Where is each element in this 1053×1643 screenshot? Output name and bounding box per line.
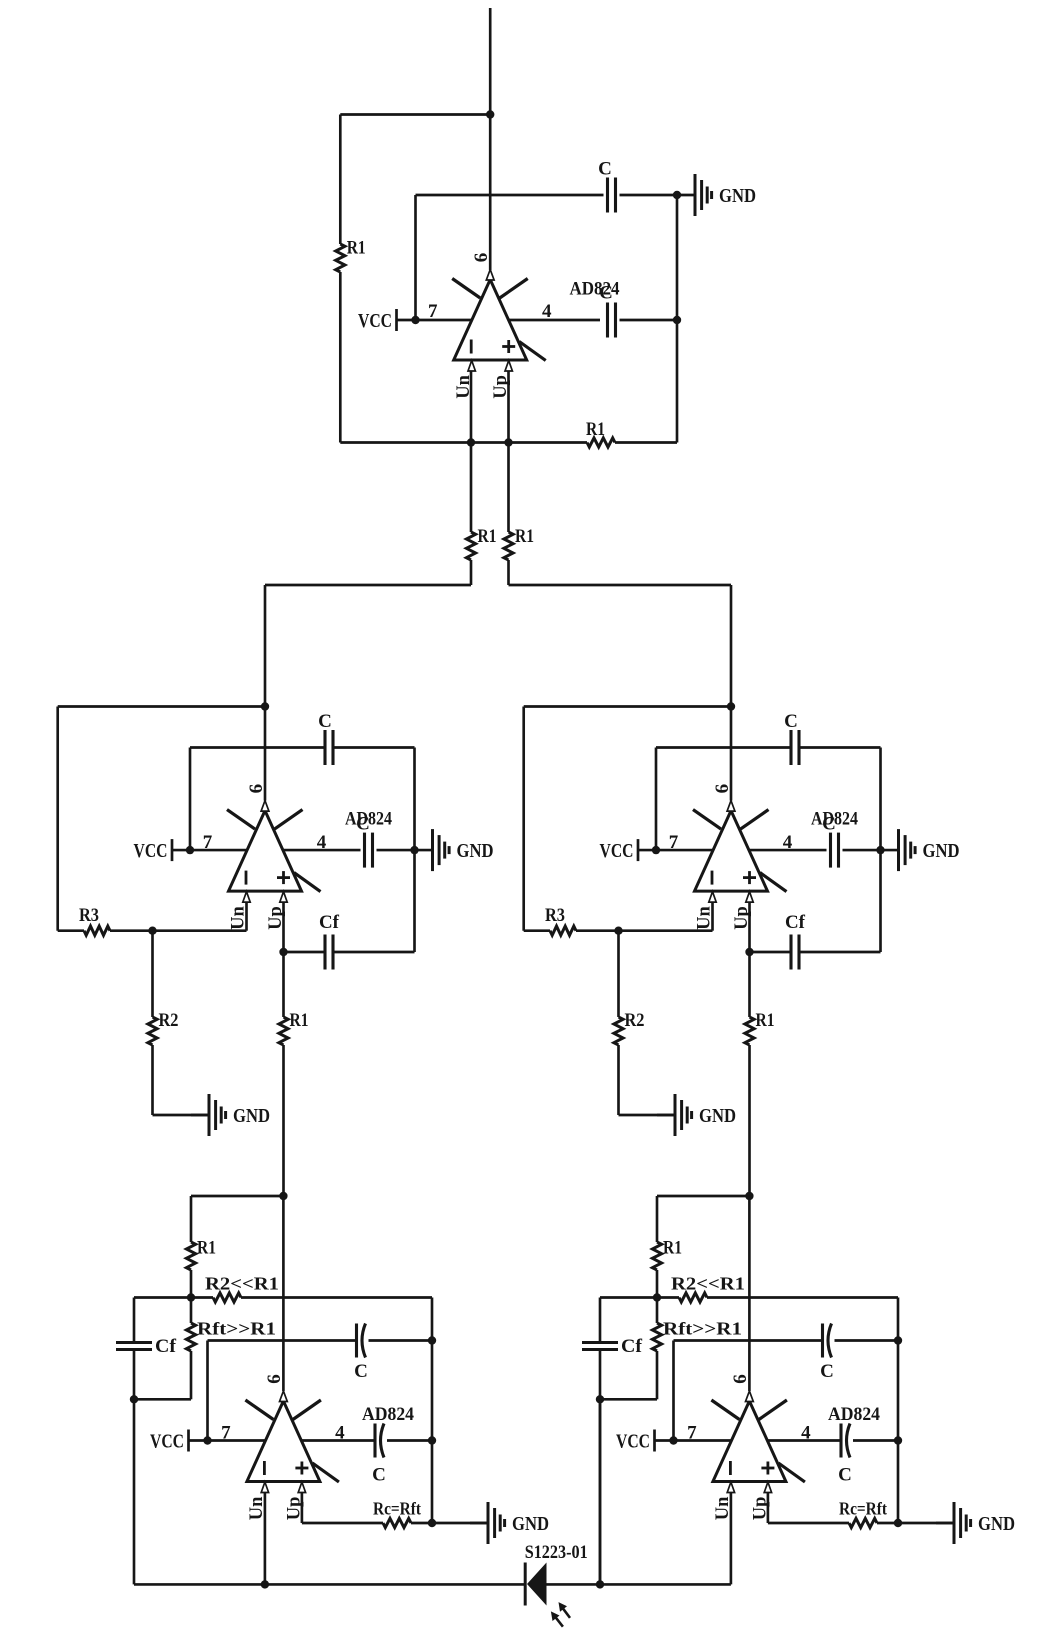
node R2 junction middle right: [614, 927, 622, 935]
resistor Rc bottom left: [383, 1518, 411, 1527]
wire Rft bottom link left: [134, 1398, 191, 1401]
svg-text:AD824: AD824: [362, 1405, 414, 1425]
svg-text:R1: R1: [586, 419, 605, 440]
light arrow 1: [551, 1611, 563, 1626]
wire R2 rail right bottom left: [241, 1296, 432, 1299]
wire pin 4 left middle right: [749, 849, 826, 852]
svg-text:R3: R3: [545, 905, 565, 926]
wire R2 lower middle left: [151, 1045, 154, 1115]
wire Up down bottom left: [301, 1493, 304, 1523]
ground pin4 middle left: [415, 829, 494, 871]
VCC supply bottom left: [150, 1430, 189, 1453]
svg-text:7: 7: [221, 1423, 231, 1444]
svg-text:C: C: [822, 814, 836, 835]
wire right stage Cf vertical to rail: [599, 1399, 602, 1584]
wire right vertical bottom left: [431, 1298, 434, 1524]
svg-text:C: C: [354, 1361, 368, 1382]
svg-text:GND: GND: [457, 841, 494, 862]
wire output to left loop middle right: [524, 705, 731, 708]
wire pin 4 left middle left: [283, 849, 360, 852]
node Cf junction middle right: [745, 948, 753, 956]
light arrow 2: [559, 1602, 571, 1618]
node input junction bottom right: [745, 1192, 753, 1200]
svg-text:C: C: [372, 1465, 386, 1486]
wire C right middle left: [333, 746, 415, 749]
wire pin 7 middle right: [638, 849, 713, 852]
wire pin 7 top stage: [397, 319, 472, 322]
svg-text:4: 4: [783, 832, 793, 853]
wire to ground middle left: [153, 1114, 210, 1117]
wire Up input upper middle right: [748, 902, 751, 953]
wire pin 7 middle left: [172, 849, 247, 852]
svg-text:GND: GND: [978, 1514, 1015, 1535]
svg-text:R1: R1: [515, 526, 534, 547]
wire R3 rail right middle right: [576, 929, 713, 932]
node C junction bottom left: [428, 1336, 436, 1344]
wire Un input middle left: [245, 902, 248, 931]
wire Cf lower bottom left: [133, 1350, 136, 1585]
resistor R1 middle right: [745, 1017, 754, 1045]
node C junction bottom right: [894, 1336, 902, 1344]
VCC supply bottom right: [616, 1430, 655, 1453]
ground R2 middle right: [657, 1094, 736, 1136]
node Rc junction bottom right: [894, 1519, 902, 1527]
wire Un down lower: [470, 560, 473, 585]
capacitor C bottom right: [823, 1324, 832, 1358]
wire R3 rail right middle left: [110, 929, 247, 932]
wire left loop vertical middle left: [56, 707, 59, 931]
wire VCC branch vertical: [414, 195, 417, 320]
wire right vertical bottom right: [897, 1298, 900, 1524]
wire Cf top bottom right: [600, 1296, 657, 1299]
wire to ground middle right: [619, 1114, 676, 1117]
resistor R2 middle left: [148, 1017, 157, 1045]
wire pin 4 top stage left: [508, 319, 600, 322]
wire Rft upper bottom left: [190, 1298, 193, 1324]
op-amp AD824 middle right: [693, 801, 787, 903]
resistor Rft bottom right: [652, 1323, 661, 1351]
wire pin 6 output bottom left: [282, 1196, 285, 1391]
wire pin 4 top stage right: [620, 319, 678, 322]
svg-text:C: C: [838, 1465, 852, 1486]
wire down to left stage output: [264, 585, 267, 707]
op-amp AD824 bottom right: [711, 1391, 805, 1493]
svg-text:6: 6: [712, 784, 733, 794]
wire right vertical middle left: [413, 748, 416, 953]
wire top stage bottom rail right: [615, 441, 677, 444]
capacitor Cf bottom left: [116, 1343, 152, 1350]
svg-text:R2: R2: [625, 1010, 645, 1031]
wire pin 4 right bottom left: [387, 1439, 432, 1442]
wire Un input middle right: [711, 902, 714, 931]
wire VCC branch bottom left: [206, 1341, 209, 1441]
node Up rail junction: [504, 438, 512, 446]
wire R2 rail left bottom right: [657, 1296, 679, 1299]
wire C right middle right: [799, 746, 881, 749]
wire R2 lower middle right: [617, 1045, 620, 1115]
node photodiode junction: [596, 1580, 604, 1588]
resistor R1 bottom right: [652, 1242, 661, 1270]
resistor Rft bottom left: [186, 1323, 195, 1351]
svg-text:R1: R1: [290, 1010, 309, 1031]
svg-text:VCC: VCC: [358, 311, 392, 332]
svg-text:4: 4: [801, 1423, 811, 1444]
wire Up input upper middle left: [282, 902, 285, 953]
svg-text:Cf: Cf: [155, 1336, 177, 1357]
wire interconnect right horizontal: [509, 584, 732, 587]
node VCC junction bottom left: [203, 1436, 211, 1444]
svg-text:7: 7: [687, 1423, 697, 1444]
capacitor Cf bottom right: [582, 1343, 618, 1350]
capacitor Cf middle right: [791, 935, 799, 970]
wire output to left loop middle left: [58, 705, 265, 708]
wire top stage bottom rail left: [340, 441, 587, 444]
wire C left bottom right: [674, 1339, 823, 1342]
wire Cf left middle right: [750, 951, 792, 954]
svg-text:S1223-01: S1223-01: [525, 1543, 588, 1563]
svg-text:R2<<R1: R2<<R1: [205, 1274, 279, 1294]
resistor R1 top stage bottom rail: [587, 438, 615, 447]
svg-text:AD824: AD824: [828, 1405, 880, 1425]
wire Cf lower bottom right: [599, 1350, 602, 1585]
node feedback junction bottom left: [187, 1293, 195, 1301]
svg-text:VCC: VCC: [600, 841, 634, 862]
node Rc junction bottom left: [428, 1519, 436, 1527]
wire Cf upper bottom right: [599, 1298, 602, 1343]
node input junction bottom left: [279, 1192, 287, 1200]
wire R3 rail left middle right: [524, 929, 550, 932]
wire R2 upper middle left: [151, 931, 154, 1017]
wire Up down upper: [507, 443, 510, 533]
op-amp AD824 top: [452, 270, 546, 372]
ground Rc bottom left: [470, 1502, 549, 1544]
wire top C left segment: [416, 194, 604, 197]
ground Rc bottom right: [936, 1502, 1015, 1544]
svg-text:6: 6: [730, 1374, 751, 1384]
wire C left bottom left: [208, 1339, 357, 1342]
svg-text:GND: GND: [233, 1106, 270, 1127]
wire Rft upper bottom right: [656, 1298, 659, 1324]
svg-text:Up: Up: [266, 906, 286, 930]
node Cf junction bottom right: [596, 1395, 604, 1403]
wire Un input bottom left: [264, 1493, 267, 1584]
wire pin 4 right bottom right: [853, 1439, 898, 1442]
capacitor C middle right: [791, 730, 799, 765]
svg-text:R1: R1: [197, 1238, 216, 1259]
svg-text:R1: R1: [756, 1010, 775, 1031]
wire pin 6 output middle right: [730, 707, 733, 801]
node pin4 GND junction middle right: [876, 846, 884, 854]
wire Rft lower bottom right: [656, 1351, 659, 1399]
svg-text:6: 6: [471, 253, 492, 263]
svg-text:6: 6: [246, 784, 267, 794]
VCC supply middle right: [600, 839, 639, 862]
wire right vertical middle right: [879, 748, 882, 953]
ground R2 middle left: [191, 1094, 270, 1136]
svg-text:R3: R3: [79, 905, 99, 926]
svg-text:C: C: [820, 1361, 834, 1382]
node output junction middle right: [727, 702, 735, 710]
wire Up to bottom stage right: [748, 1045, 751, 1196]
svg-text:GND: GND: [923, 841, 960, 862]
svg-text:Cf: Cf: [319, 912, 340, 933]
wire R1 upper bottom left: [190, 1196, 193, 1242]
svg-text:4: 4: [542, 301, 552, 322]
wire R1 upper bottom right: [656, 1196, 659, 1242]
svg-text:Up: Up: [750, 1497, 770, 1521]
wire Rc right bottom left: [411, 1522, 488, 1525]
svg-text:Rft>>R1: Rft>>R1: [663, 1319, 742, 1339]
wire Rc right bottom right: [877, 1522, 954, 1525]
node R2 junction middle left: [148, 927, 156, 935]
op-amp AD824 bottom left: [245, 1391, 339, 1493]
svg-text:7: 7: [669, 832, 679, 853]
svg-text:R2: R2: [159, 1010, 179, 1031]
wire Cf right middle right: [799, 951, 881, 954]
wire down to right stage output: [730, 585, 733, 707]
wire pin 6 output top stage: [489, 115, 492, 271]
wire top C right segment: [620, 194, 678, 197]
capacitor C pin4 middle left: [365, 833, 373, 868]
resistor R3 middle right: [550, 926, 576, 935]
node top GND junction: [673, 191, 681, 199]
wire Up mid middle left: [282, 952, 285, 1017]
svg-text:GND: GND: [719, 186, 756, 207]
wire left feedback lower: [339, 272, 342, 443]
svg-text:C: C: [599, 283, 613, 304]
wire input to top stage (pin 6 node): [489, 8, 492, 115]
photodiode D1 S1223-01: [525, 1563, 546, 1606]
wire Up input top stage: [507, 371, 510, 443]
wire C left middle right: [656, 746, 791, 749]
svg-text:Rft>>R1: Rft>>R1: [197, 1319, 276, 1339]
wire R2 rail left bottom left: [191, 1296, 213, 1299]
op-amp AD824 middle left: [227, 801, 321, 903]
wire C left middle left: [190, 746, 325, 749]
svg-text:R1: R1: [663, 1238, 682, 1259]
capacitor C pin4 bottom right: [841, 1424, 850, 1458]
node VCC junction middle right: [652, 846, 660, 854]
svg-text:Up: Up: [284, 1497, 304, 1521]
wire interconnect left horizontal: [265, 584, 471, 587]
resistor R1 on Up interconnect: [504, 532, 513, 560]
svg-text:Rc=Rft: Rc=Rft: [373, 1499, 421, 1519]
svg-text:VCC: VCC: [616, 1432, 650, 1453]
node pin4 junction bottom right: [894, 1436, 902, 1444]
svg-text:4: 4: [335, 1423, 345, 1444]
wire Cf top bottom left: [134, 1296, 191, 1299]
resistor R3 middle left: [84, 926, 110, 935]
resistor R2 middle right: [614, 1017, 623, 1045]
resistor R1 bottom left: [186, 1242, 195, 1270]
wire Rft lower bottom left: [190, 1351, 193, 1399]
svg-text:VCC: VCC: [150, 1432, 184, 1453]
svg-text:R1: R1: [478, 526, 497, 547]
node pin4 junction bottom left: [428, 1436, 436, 1444]
node output junction middle left: [261, 702, 269, 710]
capacitor C pin4 middle right: [831, 833, 839, 868]
svg-text:Un: Un: [229, 905, 249, 929]
wire left feedback upper: [339, 115, 342, 245]
resistor R2 bottom right: [679, 1293, 707, 1302]
wire pin 4 right middle right: [843, 849, 881, 852]
node top feedback junction: [486, 110, 494, 118]
svg-text:VCC: VCC: [134, 841, 168, 862]
VCC supply top stage: [358, 309, 397, 332]
wire Up down bottom right: [767, 1493, 770, 1523]
wire R2 rail right bottom right: [707, 1296, 898, 1299]
capacitor C on pin 4 top stage: [608, 303, 616, 338]
wire Up mid middle right: [748, 952, 751, 1017]
resistor R1 top-left feedback: [336, 244, 345, 272]
svg-text:Un: Un: [695, 905, 715, 929]
wire pin 4 right middle left: [377, 849, 415, 852]
wire top feedback horizontal: [340, 113, 490, 116]
wire VCC branch middle right: [655, 748, 658, 851]
svg-text:7: 7: [203, 832, 213, 853]
node VCC junction bottom right: [669, 1436, 677, 1444]
wire C right bottom right: [835, 1339, 899, 1342]
wire pin 7 bottom left: [189, 1439, 266, 1442]
wire pin 6 output bottom right: [748, 1196, 751, 1391]
svg-text:4: 4: [317, 832, 327, 853]
node Cf junction middle left: [279, 948, 287, 956]
node VCC junction middle left: [186, 846, 194, 854]
capacitor C pin4 bottom left: [375, 1424, 384, 1458]
resistor R1 on Un interconnect: [466, 532, 475, 560]
wire pin 4 left bottom left: [302, 1439, 375, 1442]
node Un rail junction: [467, 438, 475, 446]
svg-text:C: C: [598, 159, 612, 180]
wire pin 4 left bottom right: [768, 1439, 841, 1442]
svg-text:R2<<R1: R2<<R1: [671, 1274, 745, 1294]
wire bottom rail left: [134, 1583, 525, 1586]
wire R1 lower bottom left: [190, 1270, 193, 1298]
node Un bottom rail junction: [261, 1580, 269, 1588]
wire Rc left bottom left: [302, 1522, 383, 1525]
ground top stage: [677, 174, 756, 216]
svg-text:6: 6: [264, 1374, 285, 1384]
wire VCC branch middle left: [189, 748, 192, 851]
node VCC junction top: [411, 316, 419, 324]
node feedback junction bottom right: [653, 1293, 661, 1301]
wire R3 rail left middle left: [58, 929, 84, 932]
node top pin4 junction: [673, 316, 681, 324]
wire Un input top stage: [470, 371, 473, 443]
wire Cf right middle left: [333, 951, 415, 954]
wire pin 7 bottom right: [655, 1439, 732, 1442]
wire Up down lower: [507, 560, 510, 585]
svg-text:Cf: Cf: [621, 1336, 643, 1357]
wire R2 upper middle right: [617, 931, 620, 1017]
svg-text:GND: GND: [512, 1514, 549, 1535]
svg-text:C: C: [356, 814, 370, 835]
svg-text:Cf: Cf: [785, 912, 806, 933]
wire VCC branch bottom right: [672, 1341, 675, 1441]
svg-text:Up: Up: [732, 906, 752, 930]
wire to R1 branch bottom left: [191, 1195, 283, 1198]
node Cf junction bottom left: [130, 1395, 138, 1403]
capacitor C bottom left: [357, 1324, 366, 1358]
wire left loop vertical middle right: [522, 707, 525, 931]
wire bottom rail right: [547, 1583, 731, 1586]
resistor Rc bottom right: [849, 1518, 877, 1527]
wire C right bottom left: [369, 1339, 433, 1342]
capacitor Cf middle left: [325, 935, 333, 970]
wire Up to bottom stage left: [282, 1045, 285, 1196]
wire Rft bottom link right: [600, 1398, 657, 1401]
svg-text:C: C: [784, 711, 798, 732]
svg-text:R1: R1: [347, 238, 366, 259]
wire Un down upper: [470, 443, 473, 533]
wire R1 lower bottom right: [656, 1270, 659, 1298]
svg-text:C: C: [318, 711, 332, 732]
svg-text:Rc=Rft: Rc=Rft: [839, 1499, 887, 1519]
resistor R1 middle left: [279, 1017, 288, 1045]
wire Rc left bottom right: [768, 1522, 849, 1525]
wire to R1 branch bottom right: [657, 1195, 749, 1198]
svg-text:7: 7: [428, 301, 438, 322]
capacitor C middle left: [325, 730, 333, 765]
wire Cf upper bottom left: [133, 1298, 136, 1343]
ground pin4 middle right: [881, 829, 960, 871]
capacitor C top stage: [608, 178, 616, 213]
VCC supply middle left: [134, 839, 173, 862]
svg-text:GND: GND: [699, 1106, 736, 1127]
wire top stage right vertical: [676, 195, 679, 443]
wire Cf left middle left: [284, 951, 326, 954]
wire pin 6 output middle left: [264, 707, 267, 801]
resistor R2 bottom left: [213, 1293, 241, 1302]
wire Un input bottom right: [730, 1493, 733, 1584]
node pin4 GND junction middle left: [410, 846, 418, 854]
